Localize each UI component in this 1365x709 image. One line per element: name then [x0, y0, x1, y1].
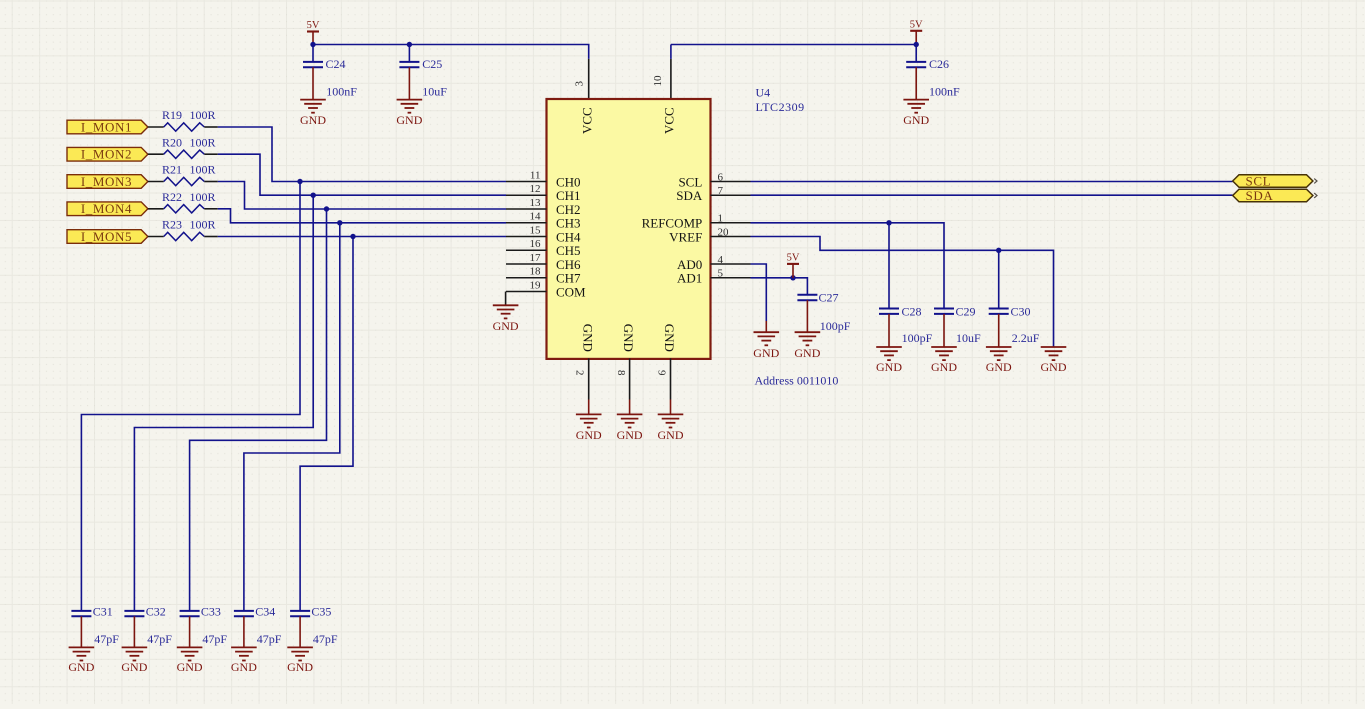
- ground (pin 8): [617, 414, 643, 442]
- svg-text:SCL: SCL: [1246, 173, 1272, 188]
- svg-text:C35: C35: [311, 604, 331, 618]
- resistor R20: [148, 135, 218, 158]
- svg-text:GND: GND: [617, 428, 643, 442]
- ground (C27): [794, 332, 820, 360]
- svg-text:C24: C24: [326, 57, 346, 71]
- svg-text:GND: GND: [794, 346, 820, 360]
- resistor R19: [148, 108, 218, 131]
- svg-text:2.2uF: 2.2uF: [1012, 331, 1040, 345]
- svg-text:11: 11: [530, 169, 541, 181]
- port SCL: [1233, 173, 1317, 188]
- svg-text:I_MON2: I_MON2: [81, 147, 132, 162]
- svg-text:CH0: CH0: [556, 174, 581, 189]
- wire AD0 to ground: [751, 264, 767, 321]
- svg-text:GND: GND: [300, 113, 326, 127]
- capacitor C35: [290, 604, 338, 647]
- svg-text:100R: 100R: [190, 163, 216, 177]
- svg-text:R23: R23: [162, 218, 182, 232]
- svg-text:GND: GND: [576, 428, 602, 442]
- port SDA: [1233, 188, 1317, 203]
- svg-text:C26: C26: [929, 57, 949, 71]
- junction CH3 tap: [337, 220, 342, 225]
- pin 17 stub: [506, 263, 547, 265]
- svg-text:47pF: 47pF: [147, 632, 172, 646]
- capacitor C24: [303, 45, 357, 100]
- svg-text:U4: U4: [756, 86, 771, 100]
- wire CH4 tap down: [300, 237, 353, 611]
- resistor R23: [148, 218, 218, 241]
- pin 15 stub: [506, 236, 547, 238]
- wire R21 to CH2: [218, 182, 506, 210]
- pin 11 stub: [506, 181, 547, 183]
- pin 7 stub: [711, 194, 751, 196]
- power 5V (AD1): [787, 253, 800, 278]
- pin 6 stub: [711, 181, 751, 183]
- svg-text:100R: 100R: [190, 108, 216, 122]
- pin 13 stub: [506, 208, 547, 210]
- svg-text:R19: R19: [162, 108, 182, 122]
- pin 4 stub: [711, 263, 751, 265]
- svg-text:100nF: 100nF: [326, 84, 357, 98]
- port I_MON1: [67, 119, 148, 134]
- pin 16 stub: [506, 249, 547, 251]
- svg-text:CH4: CH4: [556, 229, 581, 244]
- port I_MON4: [67, 201, 148, 216]
- svg-text:R20: R20: [162, 135, 182, 149]
- pin 12 stub: [506, 194, 547, 196]
- junction C25: [407, 42, 412, 47]
- capacitor C34: [234, 604, 282, 647]
- svg-text:18: 18: [530, 266, 542, 278]
- ground (COM): [493, 305, 519, 333]
- svg-text:GND: GND: [621, 324, 636, 352]
- ground (VREF net): [1041, 347, 1067, 374]
- svg-text:GND: GND: [68, 660, 94, 674]
- svg-text:GND: GND: [1041, 360, 1067, 374]
- pin 18 stub: [506, 277, 547, 279]
- ground (AD0): [753, 332, 779, 360]
- svg-text:GND: GND: [931, 360, 957, 374]
- svg-text:100pF: 100pF: [902, 331, 933, 345]
- svg-text:47pF: 47pF: [257, 632, 282, 646]
- wire R19 to CH0: [218, 127, 506, 182]
- svg-text:GND: GND: [662, 324, 677, 352]
- svg-text:5V: 5V: [307, 20, 320, 31]
- wire VREF: [751, 237, 1054, 348]
- pin 14 stub: [506, 222, 547, 224]
- svg-text:I_MON5: I_MON5: [81, 229, 132, 244]
- ground (C30): [986, 347, 1012, 374]
- wire C28 stem: [888, 223, 890, 309]
- ground (C28): [876, 347, 902, 374]
- svg-text:GND: GND: [121, 660, 147, 674]
- resistor R22: [148, 190, 218, 213]
- junction CH4 tap: [350, 234, 355, 239]
- capacitor C27: [797, 291, 850, 333]
- svg-text:C25: C25: [422, 57, 442, 71]
- svg-text:3: 3: [574, 81, 586, 87]
- ground (C35): [287, 647, 313, 674]
- pin 10 VCC: [670, 59, 672, 100]
- ground (pin 9): [658, 414, 684, 442]
- svg-text:15: 15: [530, 224, 542, 236]
- svg-text:VREF: VREF: [669, 229, 702, 244]
- svg-text:C27: C27: [819, 291, 839, 305]
- svg-text:10uF: 10uF: [422, 84, 447, 98]
- svg-text:C33: C33: [201, 604, 221, 618]
- wire 5V rail right: [671, 44, 916, 46]
- wire CH3 tap down: [244, 223, 340, 611]
- svg-text:14: 14: [530, 211, 542, 223]
- svg-text:GND: GND: [903, 113, 929, 127]
- svg-text:SDA: SDA: [676, 188, 703, 203]
- svg-text:C34: C34: [255, 604, 275, 618]
- wire C30 stem: [998, 250, 1000, 308]
- IC U4 LTC2309: [547, 99, 711, 359]
- svg-text:GND: GND: [493, 319, 519, 333]
- svg-text:VCC: VCC: [579, 107, 594, 134]
- capacitor C32: [124, 604, 172, 647]
- port I_MON5: [67, 229, 148, 244]
- capacitor C29: [934, 304, 981, 347]
- junction CH2 tap: [324, 206, 329, 211]
- pin 2 GND stub: [588, 358, 590, 399]
- wire R22 to CH3: [218, 209, 506, 223]
- svg-text:2: 2: [574, 370, 586, 376]
- svg-text:COM: COM: [556, 284, 586, 299]
- pin 1 stub: [711, 222, 751, 224]
- junction 5V/C26: [914, 42, 919, 47]
- svg-text:C32: C32: [146, 604, 166, 618]
- svg-text:SDA: SDA: [1246, 188, 1274, 203]
- svg-text:GND: GND: [231, 660, 257, 674]
- pin 5 stub: [711, 277, 751, 279]
- svg-text:GND: GND: [986, 360, 1012, 374]
- svg-text:Address 0011010: Address 0011010: [755, 373, 839, 387]
- svg-text:100R: 100R: [190, 190, 216, 204]
- junction AD1/5V: [790, 275, 795, 280]
- wire AD1: [751, 278, 808, 295]
- pin 3 VCC: [588, 59, 590, 100]
- svg-text:GND: GND: [580, 324, 595, 352]
- power 5V (right): [910, 19, 923, 44]
- svg-text:C31: C31: [93, 604, 113, 618]
- power 5V (left): [307, 20, 320, 44]
- capacitor C31: [71, 604, 119, 647]
- svg-text:C29: C29: [956, 304, 976, 318]
- ground (C24): [300, 100, 326, 128]
- svg-text:GND: GND: [753, 346, 779, 360]
- svg-text:47pF: 47pF: [202, 632, 227, 646]
- ground (C31): [68, 647, 94, 674]
- svg-text:10: 10: [652, 75, 664, 87]
- svg-text:9: 9: [656, 370, 668, 376]
- svg-text:16: 16: [530, 238, 542, 250]
- svg-text:GND: GND: [658, 428, 684, 442]
- svg-text:8: 8: [615, 370, 627, 376]
- svg-text:47pF: 47pF: [313, 632, 338, 646]
- ground (C33): [177, 647, 203, 674]
- svg-text:AD1: AD1: [677, 271, 702, 286]
- svg-text:I_MON4: I_MON4: [81, 201, 132, 216]
- ground (C29): [931, 347, 957, 374]
- AD0 ground stem: [765, 321, 767, 332]
- svg-text:C30: C30: [1011, 304, 1031, 318]
- svg-text:13: 13: [530, 197, 542, 209]
- ground (C34): [231, 647, 257, 674]
- wire SDA: [751, 194, 1233, 196]
- svg-text:100R: 100R: [190, 218, 216, 232]
- wire 5V rail left: [313, 45, 589, 59]
- svg-text:GND: GND: [876, 360, 902, 374]
- pin 19 stub: [506, 291, 547, 293]
- junction 5V/C24: [310, 42, 315, 47]
- wire SCL: [751, 181, 1233, 183]
- ground (C32): [121, 647, 147, 674]
- ground (C25): [396, 100, 422, 128]
- wire R20 to CH1: [218, 154, 506, 195]
- wire REFCOMP: [751, 223, 945, 309]
- port I_MON3: [67, 174, 148, 189]
- wire COM to ground: [505, 292, 507, 306]
- capacitor C33: [180, 604, 228, 647]
- port I_MON2: [67, 147, 148, 162]
- svg-text:SCL: SCL: [678, 174, 702, 189]
- capacitor C28: [879, 304, 933, 347]
- pin 8 GND stub: [629, 358, 631, 399]
- svg-text:LTC2309: LTC2309: [756, 100, 805, 114]
- svg-text:GND: GND: [287, 660, 313, 674]
- svg-text:100R: 100R: [190, 135, 216, 149]
- junction C28: [886, 220, 891, 225]
- svg-text:I_MON3: I_MON3: [81, 174, 132, 189]
- svg-text:17: 17: [530, 252, 542, 264]
- junction CH0 tap: [297, 179, 302, 184]
- capacitor C25: [399, 45, 447, 100]
- svg-text:AD0: AD0: [677, 257, 702, 272]
- svg-text:CH6: CH6: [556, 257, 581, 272]
- wire pin10 up: [670, 45, 672, 59]
- svg-text:19: 19: [530, 279, 542, 291]
- ground (C26): [903, 100, 929, 128]
- svg-text:100nF: 100nF: [929, 84, 960, 98]
- svg-text:CH2: CH2: [556, 202, 581, 217]
- svg-text:10uF: 10uF: [956, 331, 981, 345]
- svg-text:GND: GND: [177, 660, 203, 674]
- capacitor C30: [989, 304, 1040, 347]
- wire CH2 tap down: [190, 209, 327, 611]
- svg-text:47pF: 47pF: [94, 632, 119, 646]
- junction C30: [996, 248, 1001, 253]
- svg-text:12: 12: [530, 183, 541, 195]
- svg-text:R21: R21: [162, 163, 182, 177]
- svg-text:5V: 5V: [787, 253, 800, 264]
- resistor R21: [148, 163, 218, 186]
- svg-text:100pF: 100pF: [820, 319, 851, 333]
- svg-text:5V: 5V: [910, 19, 923, 30]
- capacitor C26: [906, 45, 960, 100]
- svg-text:I_MON1: I_MON1: [81, 119, 132, 134]
- junction CH1 tap: [311, 193, 316, 198]
- svg-text:GND: GND: [396, 113, 422, 127]
- svg-text:C28: C28: [902, 304, 922, 318]
- wire CH0 tap down: [81, 182, 300, 611]
- pin 20 stub: [711, 236, 751, 238]
- ground (pin 2): [576, 414, 602, 442]
- pin 9 GND stub: [670, 358, 672, 399]
- wire R23 to CH4: [218, 236, 506, 238]
- wire CH1 tap down: [134, 195, 313, 611]
- svg-text:VCC: VCC: [661, 107, 676, 134]
- svg-text:R22: R22: [162, 190, 182, 204]
